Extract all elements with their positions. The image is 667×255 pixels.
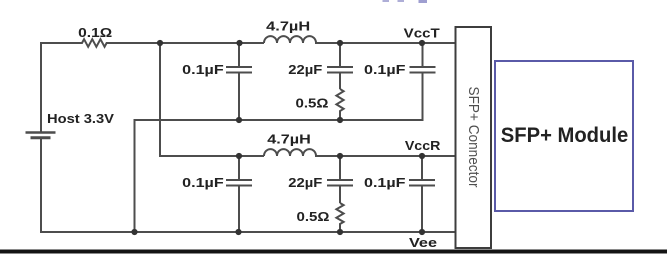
svg-text:SFP+ Module: SFP+ Module [501,124,629,147]
svg-text:0.1µF: 0.1µF [364,62,406,77]
svg-text:0.1µF: 0.1µF [182,175,224,190]
svg-text:0.5Ω: 0.5Ω [296,96,329,111]
svg-text:4.7µH: 4.7µH [266,19,310,34]
svg-text:0.1µF: 0.1µF [364,175,406,190]
svg-text:0.1µF: 0.1µF [182,62,224,77]
svg-text:4.7µH: 4.7µH [267,132,311,147]
svg-text:0.1Ω: 0.1Ω [78,25,112,40]
svg-text:Host 3.3V: Host 3.3V [47,111,114,126]
svg-text:SFP+ Connector: SFP+ Connector [465,87,481,188]
svg-text:0.5Ω: 0.5Ω [297,209,330,224]
svg-text:VccR: VccR [405,138,441,153]
svg-text:22µF: 22µF [288,62,322,77]
svg-text:22µF: 22µF [288,175,322,190]
svg-text:VccT: VccT [404,26,440,41]
svg-text:Vee: Vee [409,235,437,250]
